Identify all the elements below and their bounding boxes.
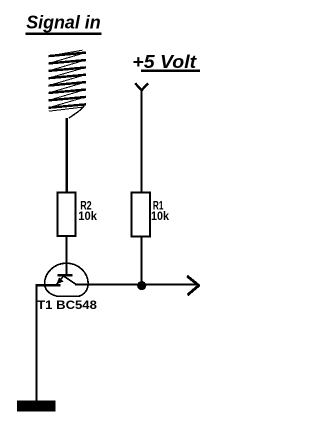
transistor T1 base bar: [58, 274, 73, 277]
svg-text:Signal in: Signal in: [26, 12, 101, 33]
transistor T1 emitter lead with arrow: [56, 276, 63, 284]
label "Signal in": [26, 12, 102, 34]
transistor T1 collector lead: [63, 276, 76, 284]
wire: R1 bottom to output node: [141, 237, 143, 286]
wire: collector to output (horizontal): [75, 284, 197, 286]
inductor L1 (signal input coil): [48, 50, 86, 118]
ground: [17, 401, 55, 412]
svg-text:10k: 10k: [151, 209, 169, 223]
svg-text:10k: 10k: [78, 209, 97, 223]
label "+5 Volt": [132, 51, 200, 72]
wire: emitter down to ground: [35, 284, 37, 401]
resistor R1: [132, 193, 151, 237]
wire: emitter to ground (horizontal): [35, 284, 60, 286]
node: junction dot at R1/collector: [137, 281, 146, 290]
output arrow: [187, 276, 199, 295]
resistor R2 label: [78, 199, 97, 223]
+5V supply connector (Y symbol): [135, 83, 148, 90]
wire: coil bottom to R2 top: [66, 118, 68, 193]
svg-text:T1 BC548: T1 BC548: [37, 298, 97, 312]
resistor R1 label: [151, 199, 169, 223]
svg-text:+5 Volt: +5 Volt: [132, 51, 197, 72]
wire: supply to R1 top: [141, 89, 143, 194]
resistor R2: [58, 193, 76, 237]
transistor T1 body (circle): [45, 263, 89, 296]
wire: R2 bottom to transistor base: [65, 236, 67, 275]
